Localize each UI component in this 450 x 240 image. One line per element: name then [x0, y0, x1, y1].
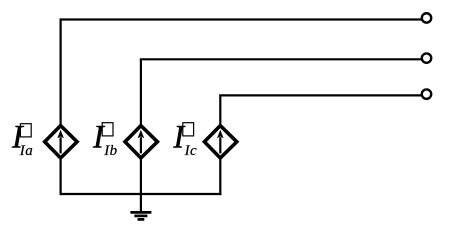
wire: source b top lead up: [140, 59, 142, 126]
wire: source c bottom lead down: [219, 157, 221, 195]
wire: source a top lead up: [59, 20, 61, 127]
label I_Ib: [92, 120, 118, 159]
wire: phase c horizontal to terminal: [219, 94, 421, 96]
label I_Ia: [11, 120, 33, 159]
terminal a (open circle): [422, 13, 431, 22]
wire: source b bottom lead down: [140, 157, 142, 194]
label I_Ic: [172, 120, 197, 159]
ground: [130, 194, 151, 219]
wire: source a bottom lead down: [59, 157, 61, 195]
svg-text:Ia: Ia: [19, 143, 33, 159]
controlled current source I_Ib (diamond): [125, 126, 157, 158]
svg-text:Ib: Ib: [103, 143, 117, 159]
terminal b (open circle): [422, 53, 431, 62]
terminal c (open circle): [422, 89, 431, 98]
svg-text:Ic: Ic: [184, 143, 197, 159]
controlled current source I_Ic (diamond): [204, 126, 236, 158]
wire: bottom rail: [60, 193, 222, 195]
wire: phase b horizontal to terminal: [140, 58, 422, 60]
controlled current source I_Ia (diamond): [45, 126, 77, 158]
wire: source c top lead up: [219, 95, 221, 126]
wire: phase a horizontal to terminal: [60, 18, 422, 20]
